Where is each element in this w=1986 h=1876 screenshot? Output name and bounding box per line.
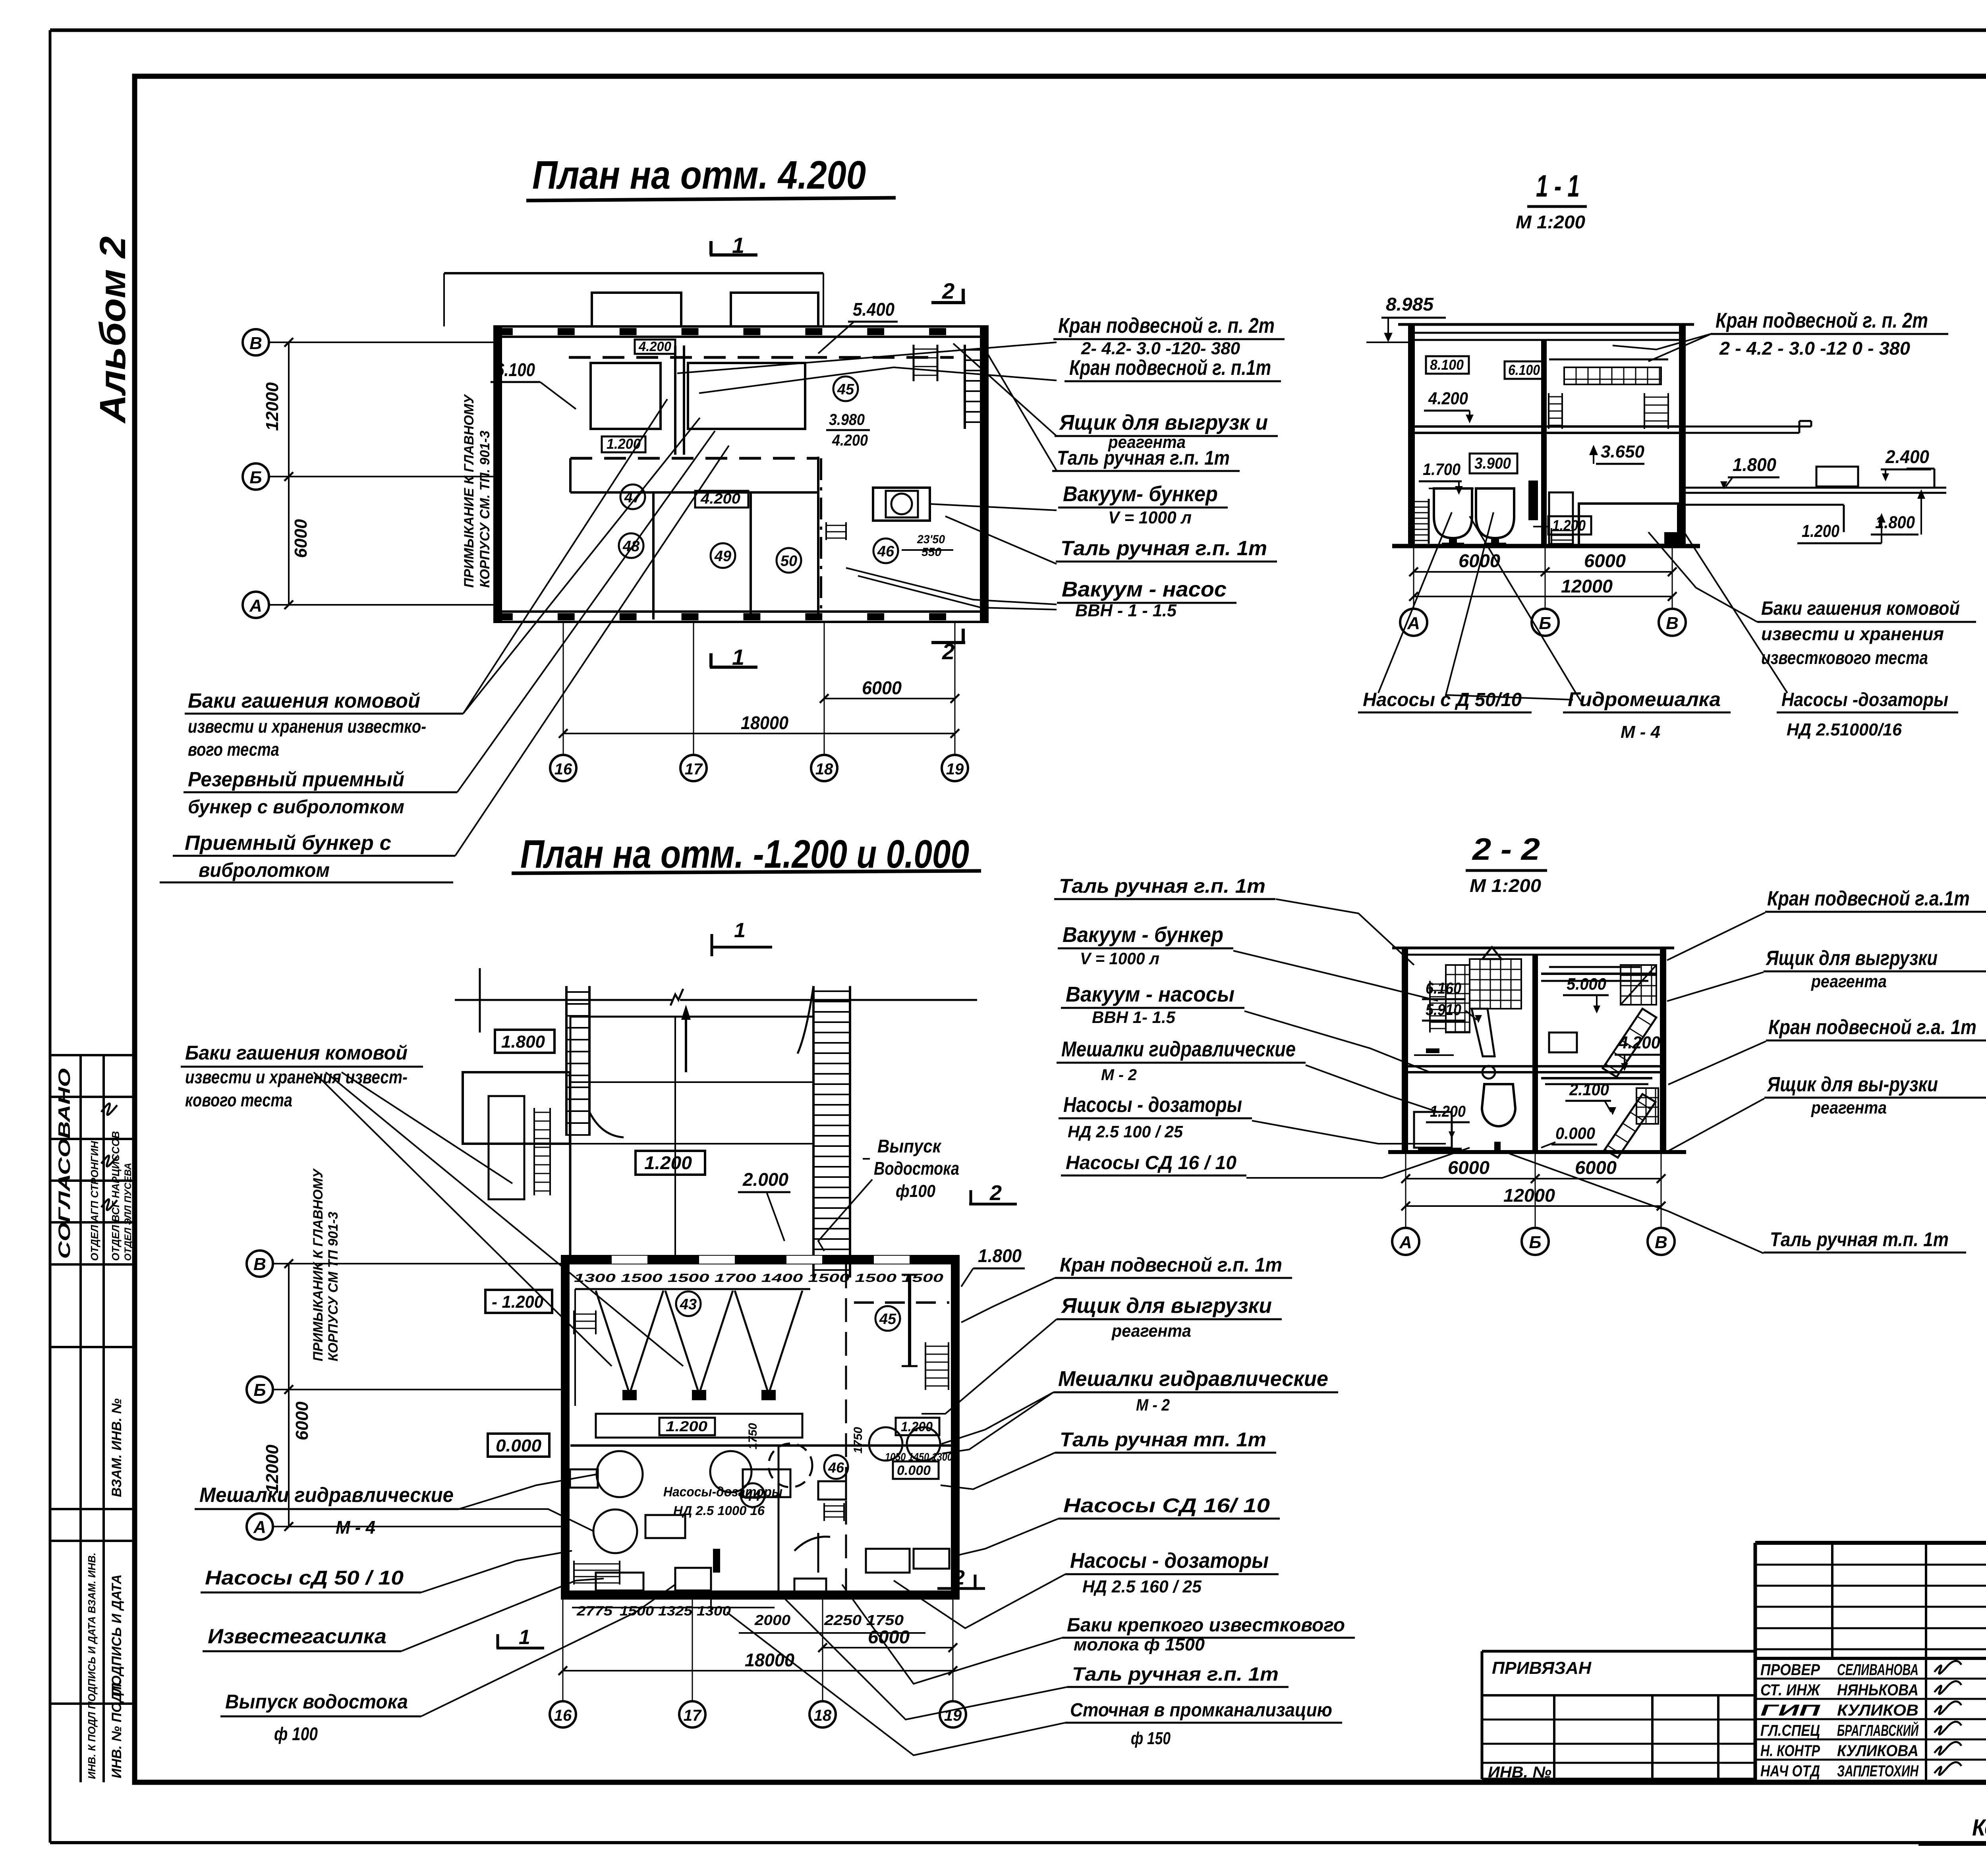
svg-text:2 - 4.2 - 3.0 -12 0 - 380: 2 - 4.2 - 3.0 -12 0 - 380 — [1719, 338, 1910, 359]
svg-text:18: 18 — [814, 1707, 832, 1724]
svg-text:ПРИМЫКАНИЕ К ГЛАВНОМУ: ПРИМЫКАНИЕ К ГЛАВНОМУ — [462, 394, 477, 588]
svg-text:550: 550 — [922, 546, 941, 559]
svg-text:1.200: 1.200 — [607, 436, 641, 452]
svg-text:6.100: 6.100 — [1508, 362, 1540, 378]
svg-text:Вакуум - бункер: Вакуум - бункер — [1063, 923, 1223, 947]
svg-text:4.200: 4.200 — [1428, 389, 1468, 408]
svg-text:НД 2.51000/16: НД 2.51000/16 — [1787, 720, 1902, 739]
svg-text:извести и хранения известко-: извести и хранения известко- — [188, 716, 426, 737]
svg-text:М 1:200: М 1:200 — [1470, 875, 1541, 896]
svg-text:5.400: 5.400 — [853, 299, 894, 320]
svg-text:М - 4: М - 4 — [1621, 722, 1660, 742]
svg-text:17: 17 — [685, 760, 703, 778]
svg-text:В: В — [1655, 1233, 1667, 1252]
svg-text:Ящик для выгрузки: Ящик для выгрузки — [1765, 947, 1938, 970]
svg-text:Вакуум - насос: Вакуум - насос — [1062, 577, 1227, 601]
svg-text:СЕЛИВАНОВА: СЕЛИВАНОВА — [1837, 1661, 1918, 1679]
svg-text:V = 1000 л: V = 1000 л — [1080, 949, 1159, 968]
svg-text:2.100: 2.100 — [1569, 1080, 1609, 1099]
svg-text:1: 1 — [732, 645, 744, 670]
svg-text:0.000: 0.000 — [496, 1436, 542, 1455]
svg-text:Сточная в промканализацию: Сточная в промканализацию — [1070, 1700, 1332, 1721]
svg-text:ЗАПЛЕТОХИН: ЗАПЛЕТОХИН — [1837, 1762, 1919, 1780]
svg-text:3.650: 3.650 — [1601, 442, 1645, 461]
svg-text:18000: 18000 — [741, 712, 788, 733]
svg-text:вибролотком: вибролотком — [199, 859, 330, 881]
svg-text:49: 49 — [714, 548, 731, 565]
svg-text:Кран подвесной г. п. 2т: Кран подвесной г. п. 2т — [1716, 309, 1928, 332]
svg-text:А: А — [1399, 1233, 1412, 1252]
svg-text:А: А — [249, 596, 262, 616]
svg-text:ОТДЕЛ ЭЛЛ ПУСЕВА: ОТДЕЛ ЭЛЛ ПУСЕВА — [123, 1163, 133, 1261]
svg-text:КУЛИКОВ: КУЛИКОВ — [1837, 1702, 1918, 1719]
svg-text:Водостока: Водостока — [874, 1158, 959, 1179]
svg-text:47: 47 — [624, 489, 642, 506]
svg-text:45: 45 — [879, 1311, 896, 1328]
svg-text:Выпуск: Выпуск — [877, 1136, 942, 1156]
svg-text:Б: Б — [1539, 614, 1551, 633]
svg-text:М - 2: М - 2 — [1136, 1395, 1170, 1414]
svg-text:ОТДЕЛ АГП СТРОНГИН: ОТДЕЛ АГП СТРОНГИН — [89, 1141, 100, 1261]
svg-text:8.100: 8.100 — [1430, 357, 1464, 373]
svg-text:Таль ручная г.п. 1т: Таль ручная г.п. 1т — [1057, 447, 1230, 469]
svg-text:Вакуум - насосы: Вакуум - насосы — [1066, 982, 1234, 1006]
svg-text:известкового теста: известкового теста — [1761, 647, 1928, 668]
svg-text:Таль ручная г.п. 1т: Таль ручная г.п. 1т — [1059, 875, 1265, 897]
svg-text:ГИП: ГИП — [1760, 1702, 1821, 1719]
svg-text:КОРПУСУ СМ ТП 901-3: КОРПУСУ СМ ТП 901-3 — [326, 1212, 341, 1361]
svg-text:12000: 12000 — [263, 382, 282, 431]
svg-text:План на отм. 4.200: План на отм. 4.200 — [532, 153, 866, 197]
svg-text:Мешалки гидравлические: Мешалки гидравлические — [1058, 1367, 1328, 1391]
svg-text:43: 43 — [680, 1296, 697, 1313]
svg-text:16: 16 — [554, 1707, 572, 1724]
svg-text:46: 46 — [828, 1459, 844, 1476]
svg-text:ИНВ. К ПОДЛ ПОДПИСЬ И ДАТА ВЗА: ИНВ. К ПОДЛ ПОДПИСЬ И ДАТА ВЗАМ. ИНВ. — [86, 1553, 98, 1779]
svg-text:6000: 6000 — [292, 1401, 312, 1440]
svg-text:4.200: 4.200 — [638, 339, 671, 354]
svg-text:ИНВ. №: ИНВ. № — [1488, 1764, 1551, 1781]
svg-text:Б: Б — [249, 468, 262, 487]
svg-text:ОТДЕЛ ВСГ НАРЦИССОВ: ОТДЕЛ ВСГ НАРЦИССОВ — [110, 1131, 122, 1261]
svg-text:46: 46 — [877, 543, 894, 560]
svg-text:1750: 1750 — [746, 1423, 759, 1449]
svg-text:3.980: 3.980 — [829, 411, 865, 428]
svg-text:Ящик для выгрузки: Ящик для выгрузки — [1061, 1294, 1272, 1318]
svg-text:Насосы - дозаторы: Насосы - дозаторы — [1070, 1549, 1269, 1573]
svg-text:1.800: 1.800 — [978, 1245, 1022, 1266]
svg-text:КОРПУСУ СМ. ТП. 901-3: КОРПУСУ СМ. ТП. 901-3 — [477, 430, 493, 588]
svg-text:ф 100: ф 100 — [274, 1724, 318, 1744]
svg-text:23'50: 23'50 — [917, 533, 945, 546]
svg-text:2.000: 2.000 — [742, 1169, 788, 1190]
svg-text:Б: Б — [1529, 1233, 1541, 1252]
svg-text:1750: 1750 — [852, 1427, 865, 1453]
svg-text:Баки гашения комовой: Баки гашения комовой — [185, 1042, 408, 1064]
svg-text:вого теста: вого теста — [188, 739, 279, 760]
svg-text:Альбом 2: Альбом 2 — [93, 236, 133, 424]
svg-text:6000: 6000 — [1584, 550, 1626, 571]
svg-text:Насосы -дозаторы: Насосы -дозаторы — [1781, 689, 1948, 710]
svg-text:18000: 18000 — [745, 1650, 794, 1670]
svg-text:Выпуск водостока: Выпуск водостока — [225, 1691, 408, 1713]
svg-text:Баки гашения комовой: Баки гашения комовой — [1761, 598, 1960, 619]
svg-text:45: 45 — [837, 381, 854, 398]
svg-text:V = 1000 л: V = 1000 л — [1108, 508, 1192, 527]
svg-text:Гидромешалка: Гидромешалка — [1568, 688, 1721, 710]
svg-text:Вакуум- бункер: Вакуум- бункер — [1063, 482, 1218, 506]
svg-text:6000: 6000 — [862, 677, 902, 698]
svg-text:бункер с вибролотком: бункер с вибролотком — [188, 797, 404, 818]
svg-text:2.400: 2.400 — [1885, 446, 1929, 467]
svg-text:Таль ручная т.п. 1т: Таль ручная т.п. 1т — [1770, 1228, 1949, 1251]
svg-text:ВВН 1- 1.5: ВВН 1- 1.5 — [1092, 1008, 1176, 1027]
svg-text:19: 19 — [946, 760, 964, 778]
svg-text:1.200: 1.200 — [1552, 517, 1586, 534]
svg-text:5.000: 5.000 — [1567, 975, 1606, 993]
svg-text:ВВН - 1 - 1.5: ВВН - 1 - 1.5 — [1075, 601, 1177, 620]
svg-text:0.000: 0.000 — [897, 1463, 931, 1478]
svg-text:8.985: 8.985 — [1386, 294, 1434, 315]
svg-text:извести и хранения: извести и хранения — [1761, 623, 1944, 644]
svg-text:1: 1 — [734, 919, 746, 942]
svg-text:извести и хранения извест-: извести и хранения извест- — [185, 1067, 408, 1087]
svg-text:1.800: 1.800 — [501, 1032, 545, 1052]
svg-text:реагента: реагента — [1811, 972, 1887, 991]
svg-text:50: 50 — [780, 553, 797, 569]
svg-text:16: 16 — [554, 760, 572, 778]
svg-text:ф 150: ф 150 — [1131, 1729, 1171, 1748]
svg-text:2: 2 — [989, 1181, 1002, 1205]
svg-text:1.200: 1.200 — [901, 1419, 933, 1434]
svg-text:ИНВ. № ПОДЛ.: ИНВ. № ПОДЛ. — [109, 1679, 124, 1778]
svg-text:НД 2.5 100 / 25: НД 2.5 100 / 25 — [1068, 1122, 1183, 1141]
svg-text:ПРИВЯЗАН: ПРИВЯЗАН — [1492, 1658, 1592, 1678]
svg-text:НД 2.5 160 / 25: НД 2.5 160 / 25 — [1082, 1577, 1202, 1596]
svg-text:12000: 12000 — [1561, 576, 1613, 596]
svg-text:1.700: 1.700 — [1423, 460, 1461, 479]
svg-text:Мешалки гидравлические: Мешалки гидравлические — [1061, 1037, 1296, 1061]
svg-text:17: 17 — [684, 1707, 702, 1724]
svg-text:18: 18 — [815, 760, 833, 778]
svg-text:Кран подвесной г. п. 2т: Кран подвесной г. п. 2т — [1058, 314, 1275, 338]
svg-text:В: В — [253, 1255, 266, 1274]
svg-text:БРАГЛАВСКИЙ: БРАГЛАВСКИЙ — [1837, 1721, 1919, 1739]
svg-text:Кран подвесной г.а.1т: Кран подвесной г.а.1т — [1767, 887, 1970, 910]
svg-text:НАЧ ОТД: НАЧ ОТД — [1760, 1762, 1820, 1780]
svg-text:Ящик для выгрузк и: Ящик для выгрузк и — [1059, 411, 1268, 434]
svg-text:НЯНЬКОВА: НЯНЬКОВА — [1837, 1681, 1918, 1699]
svg-text:2- 4.2- 3.0 -120- 380: 2- 4.2- 3.0 -120- 380 — [1081, 339, 1240, 358]
svg-text:Мешалки гидравлические: Мешалки гидравлические — [199, 1484, 454, 1507]
svg-text:12000: 12000 — [1503, 1185, 1555, 1206]
svg-text:Насосы - дозаторы: Насосы - дозаторы — [1063, 1093, 1242, 1117]
svg-text:ГЛ.СПЕЦ: ГЛ.СПЕЦ — [1760, 1722, 1820, 1739]
svg-text:2: 2 — [942, 278, 954, 303]
svg-text:2775: 2775 — [576, 1604, 613, 1619]
svg-text:4.200: 4.200 — [1618, 1033, 1660, 1052]
svg-text:Насосы СД 16 / 10: Насосы СД 16 / 10 — [1066, 1152, 1236, 1173]
svg-text:2000: 2000 — [754, 1612, 790, 1628]
svg-text:1050 1450 1300: 1050 1450 1300 — [885, 1451, 952, 1463]
svg-text:2 - 2: 2 - 2 — [1472, 832, 1540, 867]
svg-text:ПОДПИСЬ И ДАТА: ПОДПИСЬ И ДАТА — [109, 1574, 124, 1696]
svg-text:ПРОВЕР: ПРОВЕР — [1760, 1661, 1820, 1679]
svg-text:5.910: 5.910 — [1426, 1001, 1461, 1019]
svg-text:1.800: 1.800 — [1733, 454, 1776, 475]
svg-text:Таль ручная г.п. 1т: Таль ручная г.п. 1т — [1061, 537, 1267, 560]
svg-text:1: 1 — [519, 1626, 530, 1649]
svg-text:2: 2 — [953, 1566, 965, 1589]
svg-text:1.200: 1.200 — [1802, 521, 1839, 541]
svg-text:реагента: реагента — [1811, 1098, 1887, 1117]
svg-text:Насосы сД 50 / 10: Насосы сД 50 / 10 — [205, 1567, 404, 1589]
svg-text:В: В — [1666, 614, 1679, 633]
svg-text:ф100: ф100 — [896, 1181, 935, 1201]
svg-text:НД 2.5 1000 16: НД 2.5 1000 16 — [673, 1504, 765, 1518]
svg-text:Баки гашения комовой: Баки гашения комовой — [188, 689, 420, 712]
svg-text:Таль ручная тп. 1т: Таль ручная тп. 1т — [1060, 1428, 1266, 1451]
svg-text:0.000: 0.000 — [1555, 1124, 1595, 1143]
svg-text:Б: Б — [253, 1380, 266, 1400]
svg-text:Насосы СД 16/ 10: Насосы СД 16/ 10 — [1063, 1494, 1270, 1517]
svg-text:Резервный приемный: Резервный приемный — [188, 768, 404, 791]
svg-text:1300 1500 1500 1700 1400 1500: 1300 1500 1500 1700 1400 1500 1500 1500 — [574, 1272, 943, 1285]
svg-text:6000: 6000 — [291, 519, 311, 558]
svg-text:М - 2: М - 2 — [1101, 1066, 1137, 1084]
svg-text:- 1.200: - 1.200 — [492, 1292, 544, 1312]
svg-text:реагента: реагента — [1111, 1321, 1191, 1341]
svg-text:молока ф 1500: молока ф 1500 — [1074, 1635, 1205, 1654]
svg-text:А: А — [253, 1517, 266, 1537]
svg-text:Известегасилка: Известегасилка — [208, 1625, 386, 1648]
svg-text:3.900: 3.900 — [1474, 455, 1511, 472]
svg-text:Насосы-дозаторы: Насосы-дозаторы — [663, 1484, 782, 1500]
svg-text:КУЛИКОВА: КУЛИКОВА — [1837, 1742, 1918, 1760]
svg-text:4.200: 4.200 — [700, 490, 740, 507]
svg-text:М - 4: М - 4 — [336, 1517, 375, 1538]
svg-text:Н. КОНТР: Н. КОНТР — [1760, 1742, 1820, 1760]
svg-text:6000: 6000 — [1575, 1157, 1617, 1178]
svg-text:1.200: 1.200 — [644, 1152, 692, 1173]
svg-text:В: В — [249, 334, 262, 353]
svg-text:Таль ручная г.п. 1т: Таль ручная г.п. 1т — [1072, 1664, 1279, 1685]
svg-text:1 - 1: 1 - 1 — [1536, 168, 1580, 203]
svg-text:Насосы с Д 50/10: Насосы с Д 50/10 — [1363, 689, 1522, 710]
svg-text:1: 1 — [732, 233, 744, 258]
svg-text:Кран подвесной г.а. 1т: Кран подвесной г.а. 1т — [1768, 1016, 1976, 1039]
svg-text:кового теста: кового теста — [185, 1090, 292, 1110]
svg-text:СОГЛАСОВАНО: СОГЛАСОВАНО — [55, 1068, 73, 1259]
svg-text:Кран подвесной г. п.1т: Кран подвесной г. п.1т — [1069, 356, 1271, 380]
svg-text:М 1:200: М 1:200 — [1516, 212, 1585, 232]
svg-text:6.100: 6.100 — [495, 359, 535, 380]
svg-text:1.200: 1.200 — [666, 1418, 707, 1434]
svg-text:Кран подвесной г.п. 1т: Кран подвесной г.п. 1т — [1060, 1254, 1282, 1276]
svg-text:2: 2 — [942, 639, 954, 664]
svg-text:Копировал Родлевская: Копировал Родлевская — [1972, 1815, 1986, 1841]
svg-text:ПРИМЫКАНИК К ГЛАВНОМУ: ПРИМЫКАНИК К ГЛАВНОМУ — [311, 1168, 326, 1361]
svg-text:6.160: 6.160 — [1426, 980, 1461, 997]
svg-text:Приемный бункер с: Приемный бункер с — [185, 832, 391, 855]
svg-text:Баки крепкого известкового: Баки крепкого известкового — [1067, 1615, 1345, 1636]
svg-text:ВЗАМ. ИНВ. №: ВЗАМ. ИНВ. № — [109, 1398, 124, 1497]
svg-text:Ящик для вы-рузки: Ящик для вы-рузки — [1766, 1073, 1938, 1096]
svg-text:СТ. ИНЖ: СТ. ИНЖ — [1760, 1681, 1821, 1699]
svg-text:4.200: 4.200 — [832, 432, 868, 449]
svg-text:6000: 6000 — [1448, 1157, 1489, 1178]
